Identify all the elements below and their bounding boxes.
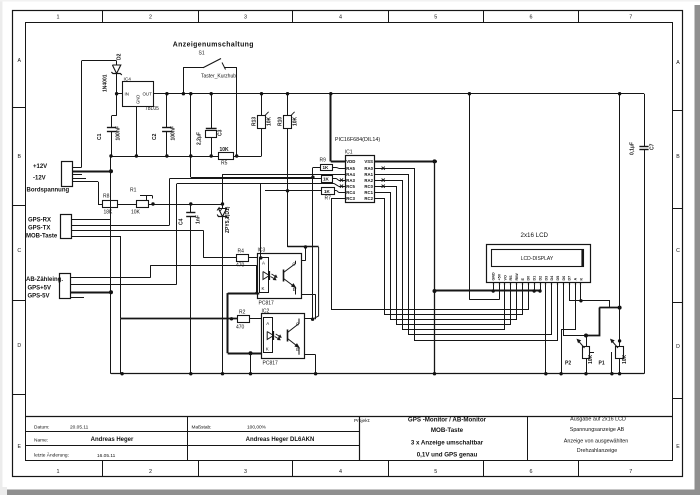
svg-text:D: D	[676, 344, 680, 350]
bottom ruler column dividers	[102, 461, 104, 477]
wire LCD pin15 to ground	[562, 285, 576, 374]
wire GPS-5V pin to ground	[71, 292, 111, 294]
wire Bordspannung GND pin	[72, 171, 111, 173]
svg-text:IN: IN	[125, 92, 129, 97]
capacitor C7 100nF rail	[644, 94, 646, 146]
svg-text:1K: 1K	[324, 189, 331, 194]
svg-text:18K: 18K	[104, 210, 114, 216]
svg-text:C3: C3	[218, 129, 224, 136]
svg-text:R8: R8	[103, 194, 110, 200]
wire RC3 to LCD pin7	[332, 199, 529, 310]
svg-text:5: 5	[434, 469, 437, 475]
svg-text:IC4: IC4	[124, 77, 132, 83]
pin marks	[382, 167, 385, 170]
wire X3 pin4 stub	[71, 297, 84, 299]
svg-text:C: C	[292, 262, 295, 267]
resistor R8 18K	[103, 201, 118, 208]
svg-text:IC1: IC1	[345, 149, 353, 155]
wire IN lead	[117, 93, 123, 95]
svg-text:100nF: 100nF	[116, 126, 122, 140]
svg-text:MOB-Taste: MOB-Taste	[26, 233, 58, 239]
svg-text:K: K	[262, 286, 265, 291]
title block table	[26, 416, 674, 418]
svg-text:Ausgabe auf 2x16 LCD: Ausgabe auf 2x16 LCD	[570, 417, 626, 423]
svg-text:100nF: 100nF	[171, 126, 177, 140]
svg-text:D0: D0	[527, 276, 531, 281]
ground line to LCD pin1	[435, 290, 541, 292]
svg-text:RC2: RC2	[364, 196, 373, 201]
svg-text:B: B	[17, 154, 21, 160]
wire Bordspannung pin4	[72, 178, 86, 180]
resistor R5 10K	[219, 153, 234, 160]
svg-text:4: 4	[339, 469, 342, 475]
resistor R4 470	[237, 255, 249, 262]
wire bus branch to opto feed	[190, 156, 192, 177]
svg-text:S1: S1	[199, 51, 205, 57]
connector X3 AB	[60, 274, 71, 299]
svg-text:A: A	[266, 321, 269, 326]
svg-text:2: 2	[149, 469, 152, 475]
svg-text:R10: R10	[278, 117, 284, 126]
svg-text:R7: R7	[325, 196, 332, 202]
capacitor C2 100nF	[166, 94, 168, 128]
svg-text:5: 5	[434, 15, 437, 21]
svg-text:+12V: +12V	[33, 164, 47, 170]
svg-text:GPS+5V: GPS+5V	[28, 285, 52, 291]
svg-text:LCD-DISPLAY: LCD-DISPLAY	[521, 256, 554, 262]
svg-text:A: A	[574, 278, 578, 281]
ground bus bottom	[111, 373, 644, 375]
svg-text:10K: 10K	[588, 354, 594, 364]
svg-text:D2: D2	[538, 276, 542, 281]
wire GPS+5V pin to RC5 line	[71, 284, 177, 286]
wire +5V to LCD pin2	[469, 94, 471, 300]
wire RC5 from opto anode node	[177, 183, 335, 185]
svg-text:RC3: RC3	[346, 196, 355, 201]
svg-text:AB-Zähleing.: AB-Zähleing.	[26, 277, 63, 283]
svg-text:GPS-TX: GPS-TX	[28, 225, 50, 231]
wire VSS line	[381, 161, 437, 163]
wire +12V riser	[72, 167, 81, 169]
svg-text:RA0: RA0	[364, 166, 373, 171]
svg-text:E: E	[293, 287, 296, 292]
svg-text:1K: 1K	[323, 177, 330, 182]
svg-text:Drehzahlanzeige: Drehzahlanzeige	[577, 448, 617, 454]
LCD pins 8 9 to ground line	[534, 285, 536, 291]
trimmer P2 10K	[583, 347, 590, 359]
svg-text:PC817: PC817	[263, 361, 279, 367]
svg-text:0,1V und GPS genau: 0,1V und GPS genau	[417, 452, 478, 459]
svg-text:Andreas Heger: Andreas Heger	[91, 437, 134, 443]
capacitor C3 2.2uF electrolytic	[211, 94, 213, 128]
wire R9 feed down to IC2 C	[312, 168, 314, 320]
svg-text:E: E	[296, 347, 299, 352]
svg-text:A: A	[17, 58, 21, 64]
wire IC3 collector up	[301, 260, 305, 262]
svg-text:IC3: IC3	[258, 248, 266, 254]
svg-text:VDD: VDD	[346, 159, 355, 164]
scan drop shadow right	[695, 5, 700, 495]
capacitor C4 1nF	[189, 202, 192, 205]
wire IC2 collector	[305, 318, 313, 320]
svg-text:R13: R13	[252, 117, 258, 126]
svg-text:GPS-5V: GPS-5V	[28, 293, 50, 299]
svg-text:Datum:: Datum:	[34, 425, 49, 431]
svg-text:-12V: -12V	[33, 176, 46, 182]
wire AB pin to IC3 K	[71, 277, 150, 279]
wire IC2 emitter to ground	[305, 354, 316, 356]
wire LCD pin14 backlight	[570, 285, 610, 308]
wire IC3 cathode	[228, 293, 260, 295]
svg-text:B: B	[676, 154, 680, 160]
svg-text:Projekt:: Projekt:	[354, 418, 370, 424]
wire P2 wiper to ground bus	[590, 352, 594, 354]
svg-text:Andreas Heger DL6AKN: Andreas Heger DL6AKN	[246, 437, 315, 443]
svg-text:4: 4	[339, 15, 342, 21]
svg-text:470: 470	[236, 263, 245, 269]
trimmer R1 10K	[137, 201, 149, 208]
svg-text:K: K	[266, 347, 269, 352]
svg-text:3: 3	[244, 15, 247, 21]
resistor R7 1K	[322, 188, 335, 195]
svg-text:RS: RS	[509, 275, 513, 281]
svg-text:Maßstab:: Maßstab:	[192, 425, 212, 431]
connector X1 Bordspannung	[62, 162, 73, 187]
svg-text:GND: GND	[136, 95, 141, 104]
svg-text:RA3: RA3	[346, 178, 355, 183]
svg-text:PIC16F684(DIL14): PIC16F684(DIL14)	[335, 137, 380, 143]
wire pin4 to R2	[72, 236, 121, 238]
svg-text:100,00%: 100,00%	[247, 425, 267, 431]
svg-text:GPS -Monitor / AB-Monitor: GPS -Monitor / AB-Monitor	[408, 417, 487, 424]
wire regulator GND to ground bus	[136, 107, 138, 157]
resistor R10 10K pullup	[287, 94, 289, 116]
svg-text:1: 1	[57, 469, 60, 475]
svg-text:Anzeigenumschaltung: Anzeigenumschaltung	[173, 42, 254, 49]
svg-text:470: 470	[236, 325, 245, 331]
wire VDD to rail	[331, 161, 339, 163]
svg-text:2: 2	[149, 15, 152, 21]
svg-text:ZPY5,1(D1): ZPY5,1(D1)	[225, 206, 231, 233]
svg-text:RA1: RA1	[364, 172, 373, 177]
resistor R2 470	[238, 316, 250, 323]
wire LCD pin13 to contrast pot	[564, 285, 587, 336]
ground bus under regulator	[111, 156, 218, 158]
wire GPS-RX pin	[72, 219, 111, 221]
svg-text:R9: R9	[320, 158, 327, 164]
svg-text:3 x Anzeige umschaltbar: 3 x Anzeige umschaltbar	[411, 440, 484, 447]
right ruler row dividers	[673, 110, 683, 112]
diode D2 1N4001	[116, 61, 118, 65]
svg-text:+5V: +5V	[497, 273, 501, 280]
svg-text:C1: C1	[97, 133, 103, 140]
svg-text:RC1: RC1	[364, 190, 373, 195]
svg-text:C7: C7	[650, 143, 656, 150]
wire D1 node to RA4	[222, 174, 224, 204]
svg-text:VSS: VSS	[364, 159, 373, 164]
svg-text:RA2: RA2	[364, 178, 373, 183]
svg-text:Anzeige von ausgewählten: Anzeige von ausgewählten	[564, 439, 628, 445]
svg-text:D6: D6	[562, 276, 566, 281]
svg-text:D1: D1	[533, 276, 537, 281]
svg-text:MOB-Taste: MOB-Taste	[431, 427, 464, 434]
left ruler row dividers	[13, 107, 26, 109]
svg-text:7: 7	[629, 469, 632, 475]
svg-text:P2: P2	[565, 361, 571, 367]
svg-text:RC4: RC4	[346, 190, 355, 195]
wire Bordspannung pin5 to R8	[72, 181, 98, 183]
svg-text:RA4: RA4	[346, 172, 355, 177]
svg-text:R/W: R/W	[515, 273, 519, 281]
trimmer P1 10K	[616, 347, 624, 359]
svg-text:1nF: 1nF	[196, 215, 202, 224]
wire LCD pin16 stub to backlight line	[580, 285, 582, 301]
svg-text:K: K	[579, 278, 583, 281]
svg-text:16.05.11: 16.05.11	[97, 453, 116, 459]
svg-text:1: 1	[57, 15, 60, 21]
wire LCD pin10 to ground bus	[545, 285, 547, 374]
svg-text:C: C	[296, 322, 299, 327]
resistor R9 1K	[321, 165, 333, 171]
svg-text:1K: 1K	[323, 165, 330, 170]
wire rail branch down	[190, 94, 192, 156]
svg-text:PC817: PC817	[259, 301, 275, 307]
wire K bus to IC2 K	[228, 353, 262, 355]
svg-text:7: 7	[629, 15, 632, 21]
svg-text:D3: D3	[544, 276, 548, 281]
svg-text:D2: D2	[117, 53, 123, 60]
wire IC3 emitter to IC2 C	[301, 294, 315, 296]
voltage regulator IC4 78L05	[123, 82, 154, 107]
scan drop shadow bottom	[7, 490, 700, 496]
svg-text:78L05: 78L05	[145, 106, 159, 112]
capacitor C1 100nF	[116, 94, 118, 116]
svg-text:1N4001: 1N4001	[103, 74, 109, 92]
wire Bordspannung pin3	[72, 174, 82, 176]
svg-text:R2: R2	[239, 310, 246, 316]
node IN of regulator	[115, 92, 118, 95]
svg-text:10K: 10K	[293, 116, 299, 126]
svg-text:6: 6	[530, 15, 533, 21]
svg-text:R1: R1	[130, 188, 137, 194]
PIC data bus to LCD	[381, 169, 558, 341]
svg-text:C4: C4	[179, 218, 185, 225]
svg-text:OUT: OUT	[143, 92, 153, 97]
svg-text:VO: VO	[503, 275, 507, 280]
ground vertical from VSS	[434, 161, 436, 373]
svg-text:10K: 10K	[220, 147, 230, 153]
svg-text:E: E	[17, 444, 21, 450]
svg-text:letzte Änderung:: letzte Änderung:	[34, 451, 69, 458]
svg-text:R4: R4	[238, 249, 245, 255]
wire pot feed heavy	[599, 307, 619, 309]
connector X2 GPS	[61, 215, 72, 239]
svg-text:Name:: Name:	[34, 438, 48, 444]
wire R10 node down to opto collectors	[287, 191, 289, 247]
svg-text:3: 3	[244, 469, 247, 475]
wire MOB to R4	[72, 230, 204, 232]
svg-text:C: C	[676, 248, 680, 254]
svg-text:10K: 10K	[622, 354, 628, 364]
+5V rail from OUT	[153, 93, 644, 95]
wire R10 node to R7	[265, 190, 322, 192]
svg-text:D: D	[17, 343, 21, 349]
svg-text:0,1µF: 0,1µF	[630, 142, 636, 155]
svg-text:E: E	[676, 444, 680, 450]
svg-text:20.05.11: 20.05.11	[70, 425, 89, 431]
svg-text:2,2µF: 2,2µF	[197, 132, 203, 145]
svg-text:Bordspannung: Bordspannung	[27, 188, 70, 194]
resistor R13 10K pullup	[261, 94, 263, 116]
svg-text:RC5: RC5	[346, 184, 355, 189]
svg-text:D5: D5	[556, 276, 560, 281]
svg-text:P1: P1	[599, 361, 605, 367]
svg-text:2x16 LCD: 2x16 LCD	[521, 232, 549, 239]
svg-text:GND: GND	[492, 272, 496, 281]
svg-text:RA5: RA5	[346, 166, 355, 171]
svg-text:Taster_Kurzhub: Taster_Kurzhub	[201, 74, 236, 80]
wire GPS-TX to 1K R11	[72, 225, 170, 227]
svg-text:R5: R5	[221, 161, 228, 167]
wire R5 to R13 node	[234, 156, 262, 158]
svg-text:GPS-RX: GPS-RX	[28, 217, 51, 223]
svg-text:10K: 10K	[131, 210, 141, 216]
resistor R11 1K	[322, 176, 333, 183]
svg-text:RC0: RC0	[364, 184, 373, 189]
svg-text:A: A	[262, 261, 265, 266]
svg-text:D7: D7	[568, 276, 572, 281]
svg-text:A: A	[676, 60, 680, 66]
svg-text:10K: 10K	[267, 116, 273, 126]
svg-text:6: 6	[530, 469, 533, 475]
ground return vertical	[110, 156, 112, 374]
top ruler column dividers	[102, 10, 104, 22]
svg-text:C: C	[17, 248, 21, 254]
svg-text:C2: C2	[152, 133, 158, 140]
zener diode D1	[221, 202, 224, 205]
svg-text:Spannungsanzeige AB: Spannungsanzeige AB	[570, 427, 625, 433]
